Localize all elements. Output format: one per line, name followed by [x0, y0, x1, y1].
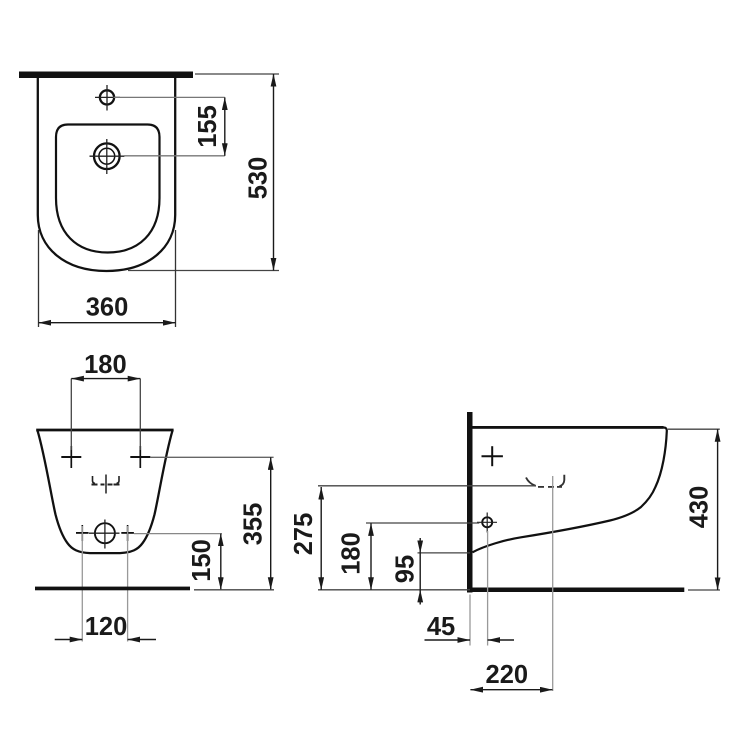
svg-text:180: 180 — [338, 532, 366, 575]
svg-text:360: 360 — [86, 294, 129, 322]
svg-text:180: 180 — [84, 351, 127, 379]
svg-text:120: 120 — [85, 613, 128, 641]
svg-text:220: 220 — [486, 661, 529, 689]
svg-text:430: 430 — [686, 486, 714, 529]
svg-text:150: 150 — [188, 539, 216, 582]
svg-text:45: 45 — [427, 613, 455, 641]
svg-text:355: 355 — [240, 503, 268, 546]
svg-text:530: 530 — [245, 157, 273, 200]
svg-text:275: 275 — [290, 513, 318, 556]
svg-text:155: 155 — [194, 105, 222, 148]
svg-text:95: 95 — [392, 555, 420, 583]
